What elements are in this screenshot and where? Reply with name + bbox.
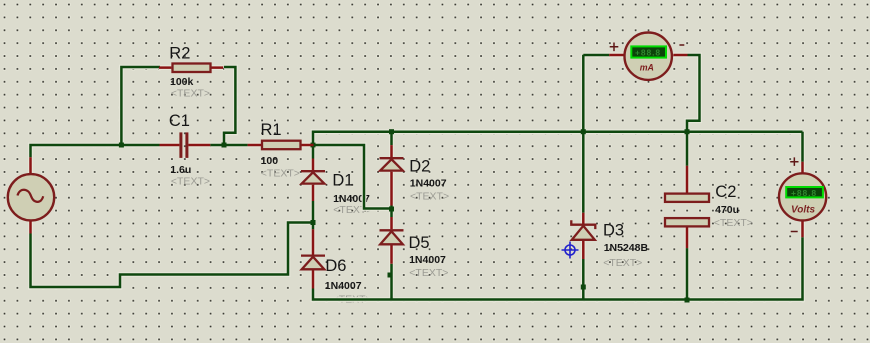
svg-text:<TEXT>: <TEXT>	[410, 191, 449, 203]
svg-text:C2: C2	[715, 183, 736, 201]
svg-text:R2: R2	[169, 45, 190, 63]
svg-text:1N4007: 1N4007	[325, 280, 362, 292]
svg-text:D1: D1	[332, 172, 353, 190]
svg-text:1.6u: 1.6u	[170, 164, 191, 176]
svg-text:D6: D6	[325, 257, 346, 275]
svg-text:R1: R1	[261, 121, 282, 139]
svg-text:+88.8: +88.8	[791, 188, 817, 198]
svg-text:<TEXT>: <TEXT>	[171, 87, 210, 99]
svg-text:470u: 470u	[715, 204, 739, 216]
svg-text:<TEXT>: <TEXT>	[261, 167, 300, 179]
svg-text:C1: C1	[169, 112, 190, 130]
svg-text:mA: mA	[640, 62, 654, 72]
svg-text:D2: D2	[409, 158, 430, 176]
svg-text:+88.8: +88.8	[635, 47, 661, 57]
svg-text:1N5248B: 1N5248B	[604, 242, 649, 254]
svg-text:1N4007: 1N4007	[410, 178, 447, 190]
svg-text:Volts: Volts	[791, 205, 816, 216]
svg-text:<TEXT>: <TEXT>	[714, 217, 753, 229]
svg-text:<TEXT>: <TEXT>	[603, 257, 642, 269]
svg-text:D5: D5	[409, 234, 430, 252]
svg-text:D3: D3	[603, 222, 624, 240]
svg-text:1N4007: 1N4007	[409, 254, 446, 266]
svg-text:100: 100	[261, 155, 279, 167]
svg-text:<TEXT>: <TEXT>	[409, 267, 448, 279]
svg-text:<TEXT>: <TEXT>	[171, 175, 210, 187]
svg-text:100k: 100k	[170, 76, 194, 88]
